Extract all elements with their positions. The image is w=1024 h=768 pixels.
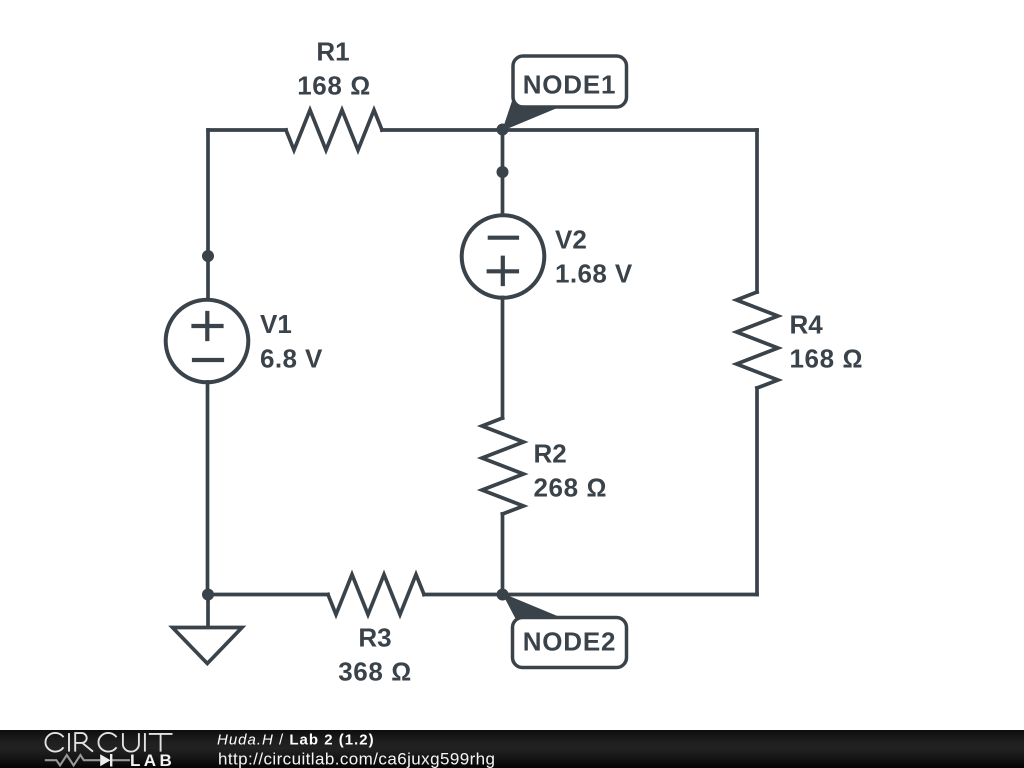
footer bar: [0, 730, 1024, 768]
voltage source V2: [462, 215, 545, 298]
svg-text:268 Ω: 268 Ω: [534, 473, 608, 503]
svg-text:NODE1: NODE1: [523, 70, 617, 100]
wire middle below V2: [501, 298, 505, 419]
wire top-right segment: [382, 128, 757, 132]
svg-text:R2: R2: [534, 439, 567, 469]
svg-text:368 Ω: 368 Ω: [338, 657, 412, 687]
wire bottom-right segment: [424, 593, 757, 597]
svg-text:R3: R3: [358, 623, 391, 653]
resistor R3: [328, 575, 424, 615]
wire left vertical lower: [206, 382, 210, 595]
logo diode: [100, 754, 110, 766]
wire right vertical upper: [755, 130, 759, 292]
ground node dot: [202, 589, 214, 601]
wire bottom-left segment: [208, 593, 328, 597]
node junction NODE1 dot: [497, 124, 509, 136]
svg-text:NODE2: NODE2: [523, 627, 617, 657]
svg-text:6.8 V: 6.8 V: [260, 344, 323, 374]
node junction NODE2 dot: [497, 589, 509, 601]
svg-text:R4: R4: [790, 310, 824, 340]
resistor R2: [482, 418, 524, 514]
svg-text:http://circuitlab.com/ca6juxg5: http://circuitlab.com/ca6juxg599rhg: [218, 750, 495, 768]
voltage source V1: [166, 300, 249, 383]
NODE1 callout wedge: [502, 101, 562, 131]
svg-text:168 Ω: 168 Ω: [790, 344, 864, 374]
resistor R4: [737, 292, 779, 388]
wire middle lower: [501, 514, 505, 595]
node dot left wire: [202, 250, 214, 262]
NODE2 callout wedge: [502, 593, 561, 622]
svg-text:LAB: LAB: [130, 751, 175, 768]
NODE2 label box: [513, 618, 627, 668]
wire top-left segment: [208, 128, 286, 132]
ground: [206, 595, 210, 628]
wire right vertical lower: [755, 388, 759, 595]
svg-text:V2: V2: [555, 225, 587, 255]
svg-text:R1: R1: [316, 37, 349, 67]
resistor R1: [286, 110, 382, 150]
svg-text:168 Ω: 168 Ω: [297, 71, 371, 101]
node dot below NODE1: [497, 166, 509, 178]
wire left vertical upper: [206, 130, 210, 300]
CircuitLab logo word CIRCUIT (drawn strokes): [45, 733, 172, 752]
svg-text:1.68 V: 1.68 V: [555, 259, 633, 289]
wire middle vertical upper: [501, 130, 505, 216]
svg-text:Huda.H / Lab 2 (1.2): Huda.H / Lab 2 (1.2): [217, 731, 375, 748]
svg-text:V1: V1: [260, 309, 292, 339]
NODE1 label box: [513, 56, 627, 107]
logo resistor-diode squiggle: [45, 755, 130, 765]
